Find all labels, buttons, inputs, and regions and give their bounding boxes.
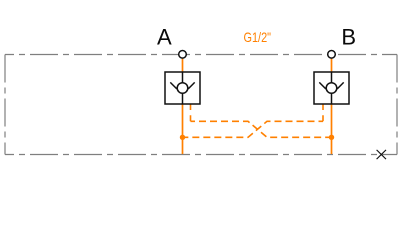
blocked port X mark (bottom right) — [377, 150, 386, 159]
wire: port B riser — [331, 59, 333, 72]
wire: main line B below valve — [331, 104, 333, 154]
wire: main line A below valve — [182, 104, 184, 154]
check valve V2 (port B) — [314, 72, 349, 104]
wire: port A riser — [182, 59, 184, 72]
port A connection point — [179, 51, 187, 59]
port B connection point — [328, 51, 336, 59]
pilot line stub from valve A pilot port — [190, 104, 192, 121]
pilot line stub from valve B pilot port — [322, 104, 324, 121]
svg-text:A: A — [157, 24, 172, 49]
enclosure dash-dot border (valve block outline) — [5, 55, 397, 155]
pilot line: valve A pilot to main line B (dashed, crosses over) — [191, 121, 332, 137]
junction node on main line B — [329, 135, 334, 140]
pilot line: main line A to valve B pilot (dashed, crosses over) — [183, 121, 324, 137]
junction node on main line A — [180, 135, 185, 140]
check valve V1 (port A) — [165, 72, 200, 104]
svg-text:B: B — [341, 24, 356, 49]
svg-text:G1/2": G1/2" — [244, 29, 272, 45]
